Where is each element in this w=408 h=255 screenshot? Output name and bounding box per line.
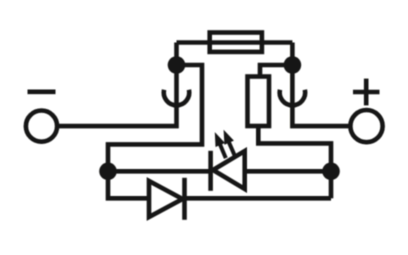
- LED D2 emission arrow 2: [224, 130, 236, 157]
- LED D2 emission arrow 1: [215, 132, 226, 158]
- clamp contact left: [164, 90, 190, 105]
- LED D2 cathode bar: [208, 151, 213, 191]
- wire left drop to node: [174, 43, 179, 68]
- node junction dot top-left: [168, 56, 186, 74]
- node junction dot top-right: [284, 56, 302, 74]
- resistor R1: [248, 77, 270, 127]
- node junction dot bottom-right: [322, 163, 340, 181]
- wire LED rail left segment: [108, 169, 211, 174]
- wire right drop to node: [290, 43, 295, 68]
- node junction dot bottom-left: [99, 163, 117, 181]
- plus sign label: [353, 79, 380, 106]
- LED D2 triangle: [213, 151, 245, 189]
- diode D1 triangle: [149, 181, 183, 217]
- clamp contact right: [280, 90, 305, 105]
- terminal circle minus: [26, 111, 57, 142]
- wire bottom-left drop and diode rail left segment: [108, 171, 149, 198]
- wire diode rail right segment: [185, 196, 332, 201]
- fuse F1: [210, 33, 262, 52]
- minus sign label: [28, 90, 56, 95]
- wire resistor bottom to bottom-right node: [258, 126, 331, 171]
- wire from top-right node to resistor top: [260, 65, 292, 77]
- wire bypass from top-left node to bottom-left node: [108, 65, 202, 171]
- wire LED rail right segment: [245, 169, 331, 174]
- wire right clamp drop and run to plus terminal: [292, 65, 352, 126]
- wire fuse through-conductor: [177, 40, 293, 45]
- terminal circle plus: [350, 110, 382, 142]
- wire bottom-right drop: [329, 171, 334, 198]
- diode D1 cathode bar: [182, 178, 187, 220]
- wire left clamp drop and run to minus terminal: [59, 65, 177, 126]
